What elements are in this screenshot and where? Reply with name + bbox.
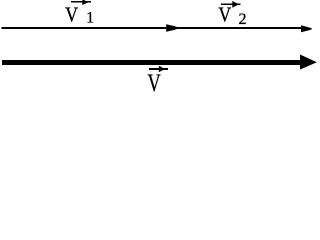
label V resultant: overbar arrow shaft	[149, 68, 168, 70]
resultant vector V arrowhead	[300, 55, 317, 70]
svg-text:2: 2	[239, 11, 247, 28]
vector V1 arrow shaft	[2, 27, 168, 29]
vector V2 arrowhead	[301, 25, 312, 32]
resultant vector V thick shaft	[2, 60, 301, 65]
label V resultant: overbar arrowhead	[159, 66, 165, 73]
vector V2 arrow shaft	[175, 27, 303, 29]
label V1: overbar arrowhead	[82, 0, 89, 5]
label V2: overbar arrowhead	[232, 1, 239, 8]
svg-text:1: 1	[86, 10, 94, 27]
label V2: overbar arrow shaft	[221, 3, 241, 5]
label V1: overbar arrow shaft	[71, 1, 91, 3]
svg-text:V: V	[65, 3, 78, 27]
vector V1 arrowhead	[166, 24, 177, 31]
svg-text:V: V	[148, 70, 161, 94]
svg-text:V: V	[218, 3, 231, 27]
